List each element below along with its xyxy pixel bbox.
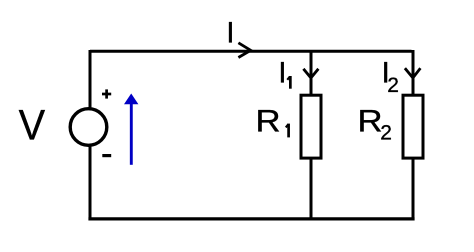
svg-text:I: I <box>278 56 286 89</box>
svg-text:I: I <box>226 16 234 49</box>
svg-text:2: 2 <box>380 121 392 144</box>
svg-text:2: 2 <box>387 74 399 97</box>
svg-text:V: V <box>19 103 46 150</box>
svg-text:R: R <box>256 103 281 139</box>
svg-text:R: R <box>358 103 383 139</box>
